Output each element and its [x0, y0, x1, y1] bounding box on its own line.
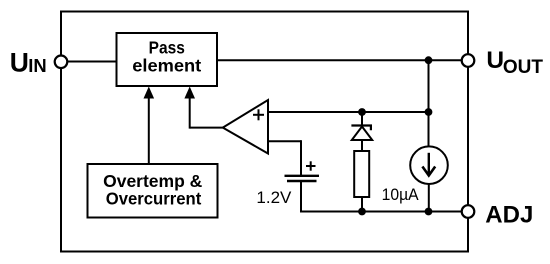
svg-text:1.2V: 1.2V: [256, 188, 292, 207]
wire resistor to ADJ rail: [361, 197, 363, 212]
wire pass element to U_OUT: [217, 59, 463, 61]
svg-text:OUT: OUT: [503, 57, 544, 78]
wire overtemp block to pass element with arrow: [144, 87, 155, 165]
resistor R1: [354, 151, 369, 197]
zener diode D1: [351, 126, 372, 141]
wire op-amp plus input to feedback node: [268, 111, 429, 113]
wire op-amp output to pass element with arrow: [184, 87, 222, 129]
terminal U_IN: [55, 56, 68, 69]
wire battery to ADJ rail: [300, 181, 462, 212]
zener branch wire top: [361, 112, 363, 125]
terminal ADJ: [462, 205, 475, 218]
svg-text:Pass: Pass: [149, 37, 185, 57]
label U_IN: [10, 48, 47, 78]
wire current source to ADJ rail: [428, 183, 430, 212]
wire U_IN to pass element: [66, 61, 117, 63]
current source I1: [410, 146, 448, 184]
wire op-amp minus input to reference: [268, 140, 301, 175]
svg-text:10µA: 10µA: [382, 185, 420, 204]
IC outline box: [61, 12, 468, 252]
label U_OUT: [486, 47, 543, 78]
svg-text:U: U: [486, 47, 504, 74]
junction dot resistor bottom: [358, 208, 366, 216]
terminal U_OUT: [462, 54, 475, 67]
pass element U1: [117, 33, 218, 86]
svg-text:IN: IN: [28, 55, 46, 76]
junction dot current source on ADJ rail: [425, 208, 433, 216]
junction dot zener top: [358, 108, 366, 116]
junction dot on output rail: [425, 56, 433, 64]
overtemp &amp; overcurrent block U2: [88, 164, 218, 218]
op-amp U3 (error amplifier): [223, 100, 268, 154]
junction dot on plus input wire: [425, 108, 433, 116]
battery reference BT1 1.2V: [285, 161, 320, 181]
svg-text:Overcurrent: Overcurrent: [106, 189, 202, 209]
wire feedback node down from output rail: [428, 60, 430, 147]
svg-text:ADJ: ADJ: [485, 201, 533, 228]
svg-text:U: U: [10, 48, 29, 78]
wire zener to resistor: [361, 140, 363, 151]
svg-text:element: element: [132, 56, 201, 76]
